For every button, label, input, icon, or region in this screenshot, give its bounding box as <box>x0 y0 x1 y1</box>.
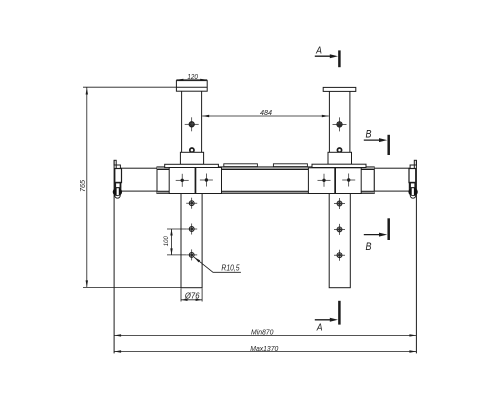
right column body <box>328 91 330 152</box>
svg-text:484: 484 <box>260 108 272 117</box>
svg-text:Ø76: Ø76 <box>184 292 200 301</box>
dim Min870 dimension line <box>114 334 416 336</box>
clamp bolt 1 <box>176 174 189 187</box>
leader R10,5 <box>194 257 241 272</box>
clamp plate 4 <box>336 168 362 194</box>
dim 100 dimension line <box>167 229 186 255</box>
right inner arm beam <box>374 168 409 191</box>
left leg hole 3 <box>186 249 197 260</box>
left leg hole 2 <box>186 224 197 235</box>
svg-text:120: 120 <box>187 72 198 81</box>
left column grease ring <box>190 148 194 152</box>
dim 765 top extension line <box>83 86 176 88</box>
right column base block <box>328 152 352 164</box>
right column grease ring <box>337 148 341 152</box>
svg-text:100: 100 <box>164 236 170 247</box>
clamp plate 2 <box>196 168 222 194</box>
dim diameter 76 <box>181 288 202 301</box>
svg-text:Min870: Min870 <box>251 328 274 337</box>
right leg hole 2 <box>334 224 345 235</box>
dim Max1370 dimension line <box>114 350 416 352</box>
clamp plate 1 <box>169 168 195 194</box>
left slide plate <box>224 164 258 167</box>
svg-text:765: 765 <box>78 179 87 192</box>
left column cap pad <box>176 81 207 92</box>
svg-text:B: B <box>366 129 372 141</box>
section mark B bottom <box>364 218 389 240</box>
svg-text:A: A <box>315 44 322 56</box>
left column base block <box>180 152 203 164</box>
left end latch <box>113 160 122 353</box>
right end latch <box>408 160 417 353</box>
clamp bolt 4 <box>342 174 355 187</box>
outer box beam <box>157 167 374 194</box>
right slide plate <box>273 164 307 167</box>
right column cap plate <box>323 87 356 91</box>
svg-text:R10,5: R10,5 <box>221 263 240 272</box>
svg-text:Max1370: Max1370 <box>250 344 279 353</box>
clamp bolt 3 <box>318 174 331 187</box>
svg-text:A: A <box>316 321 323 333</box>
right column hole <box>333 117 347 131</box>
right base plate <box>312 164 366 167</box>
left column hole <box>185 117 199 131</box>
right leg hole 3 <box>334 250 345 261</box>
left column body <box>181 91 183 152</box>
clamp plate 3 <box>308 168 334 194</box>
section mark A bottom <box>315 301 340 325</box>
outer box bottom flange band <box>157 191 374 193</box>
dim 484 dimension line <box>202 115 329 117</box>
outer box top flange band <box>157 167 374 169</box>
dim 765 vertical dimension line <box>86 88 88 288</box>
section mark B top <box>364 135 389 155</box>
left leg hole 1 <box>186 198 197 209</box>
right leg <box>329 194 350 288</box>
left base plate <box>165 164 219 167</box>
section mark A top <box>315 50 340 67</box>
dim 120 dimension line <box>176 79 207 81</box>
right leg hole 1 <box>334 198 345 209</box>
clamp bolt 2 <box>200 174 213 187</box>
left leg <box>181 194 202 288</box>
svg-text:B: B <box>366 241 372 253</box>
dim 765 bottom extension line <box>83 286 181 288</box>
left inner arm beam <box>121 168 157 191</box>
